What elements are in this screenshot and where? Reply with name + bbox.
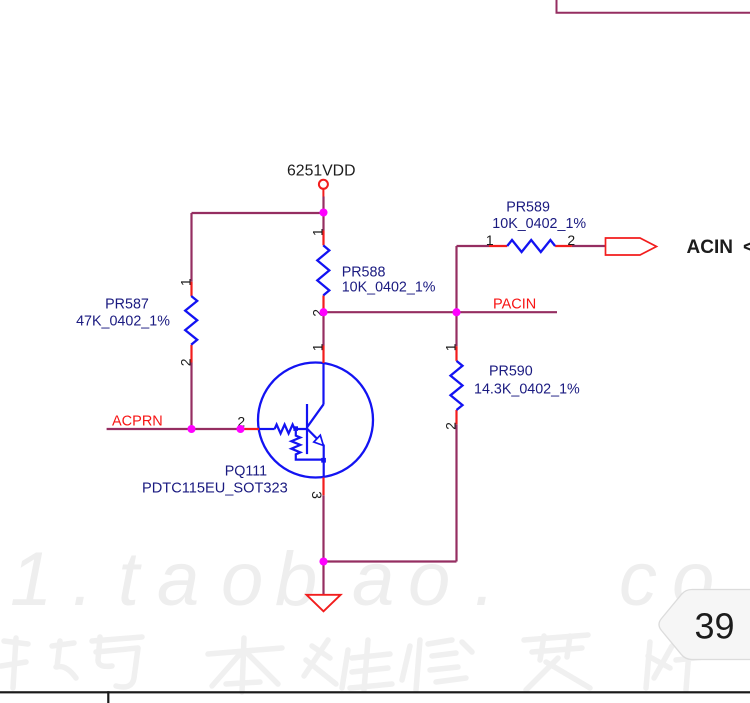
wire: PR589 branch vertical (455, 246, 457, 312)
svg-text:PR590: PR590 (489, 364, 533, 380)
wire: power drop to junction (322, 197, 324, 231)
svg-text:3: 3 (309, 491, 325, 499)
resistor PR588 (317, 231, 329, 309)
svg-text:PR587: PR587 (105, 297, 149, 313)
svg-text:o: o (221, 537, 263, 622)
junction: power node (319, 208, 327, 216)
svg-text:PR588: PR588 (342, 265, 386, 281)
svg-text:a: a (157, 537, 199, 622)
transistor PQ111 (241, 346, 374, 496)
wire: PR589 to connector (572, 245, 606, 247)
wire: PR587 bottom to ACPRN (190, 363, 192, 430)
resistor PR587 (185, 282, 197, 363)
svg-text:2: 2 (443, 422, 459, 430)
svg-text:PR589: PR589 (506, 200, 550, 216)
junction: PACIN node at PR588 (319, 308, 327, 316)
PR588 labels (342, 265, 436, 296)
svg-text:.: . (72, 537, 93, 622)
resistor PR590 (451, 346, 463, 424)
svg-text:10K_0402_1%: 10K_0402_1% (342, 280, 436, 296)
power symbol 6251VDD (319, 180, 328, 197)
svg-text:t: t (118, 537, 142, 622)
wire: PR587 branch vertical top (190, 213, 192, 282)
svg-text:c: c (619, 537, 657, 622)
wire: PACIN horizontal (324, 311, 558, 313)
wire: PR588 bottom junction down to transistor (322, 312, 324, 345)
svg-text:o: o (408, 537, 450, 622)
svg-text:1: 1 (310, 343, 326, 351)
ground (307, 595, 341, 612)
svg-text:PQ111: PQ111 (225, 463, 267, 479)
junction: ground node (319, 557, 327, 565)
junction: ACPRN at PR587 (187, 425, 195, 433)
svg-text:2: 2 (178, 358, 194, 366)
svg-text:1: 1 (178, 278, 194, 286)
svg-text:PACIN: PACIN (493, 297, 536, 313)
wire: PR590 bottom to ground rail (455, 424, 457, 561)
svg-text:1: 1 (486, 232, 494, 248)
resistor PR589 (489, 240, 572, 252)
svg-text:1: 1 (443, 343, 459, 351)
svg-text:6251VDD: 6251VDD (287, 163, 356, 180)
wire: bottom horizontal to emitter node (324, 560, 457, 562)
svg-text:1: 1 (10, 537, 52, 622)
svg-text:1: 1 (310, 228, 326, 236)
wire: PR590 top lead run (455, 312, 457, 346)
PR590 labels (474, 364, 580, 398)
svg-text:10K_0402_1%: 10K_0402_1% (492, 216, 586, 232)
junction: PACIN node at PR590 (452, 308, 460, 316)
wire: PR589 horizontal run (457, 245, 490, 247)
wire: emitter down to ground (322, 495, 324, 595)
svg-text:39: 39 (694, 606, 734, 647)
svg-text:47K_0402_1%: 47K_0402_1% (76, 314, 170, 330)
svg-text:a: a (352, 537, 394, 622)
svg-text:14.3K_0402_1%: 14.3K_0402_1% (474, 382, 580, 398)
PR587 labels (76, 297, 170, 330)
PQ111 labels (142, 463, 288, 496)
wire: ACPRN horizontal (107, 428, 241, 430)
wire: top horizontal to PR587 (192, 212, 324, 214)
svg-text:b: b (275, 537, 317, 622)
svg-text:ACIN<: ACIN< (687, 237, 750, 258)
svg-text:2: 2 (567, 232, 575, 248)
svg-text:ACPRN: ACPRN (112, 413, 163, 429)
connector ACIN (606, 238, 657, 255)
junction: ACPRN at base pin (236, 425, 244, 433)
svg-text:.: . (474, 537, 495, 622)
svg-text:PDTC115EU_SOT323: PDTC115EU_SOT323 (142, 481, 288, 497)
PR589 labels (492, 200, 586, 232)
